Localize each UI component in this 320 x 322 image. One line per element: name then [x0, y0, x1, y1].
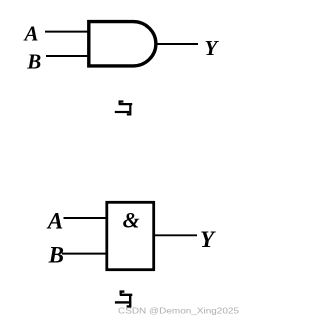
- svg-text:A: A: [46, 208, 63, 234]
- wire: U2 output to Y: [154, 234, 197, 236]
- label B (U2 input B): [48, 243, 64, 268]
- svg-text:A: A: [23, 21, 39, 45]
- wire: input A to U1: [45, 31, 88, 33]
- caption 与 (AND) under U1, drawn glyph: [115, 102, 132, 115]
- label A (U2 input A): [46, 208, 63, 234]
- svg-text:CSDN @Demon_Xing2025: CSDN @Demon_Xing2025: [118, 306, 240, 315]
- AND gate U2 (IEC rectangular symbol): [107, 202, 154, 269]
- svg-text:&: &: [123, 209, 140, 233]
- AND gate U1 (distinctive D-shape symbol): [89, 22, 156, 66]
- label & inside U2: [123, 209, 140, 233]
- watermark CSDN @Demon_Xing2025: [118, 306, 240, 315]
- label A (U1 input A): [23, 21, 39, 45]
- svg-text:Y: Y: [205, 36, 220, 60]
- wire: input B to U2: [62, 253, 106, 255]
- wire: U1 output to Y: [157, 43, 198, 45]
- svg-text:B: B: [26, 50, 41, 74]
- label Y (U1 output): [205, 36, 220, 60]
- caption 与 (AND) under U2, drawn glyph: [115, 292, 132, 307]
- wire: input B to U1: [46, 55, 88, 57]
- label B (U1 input B): [26, 50, 41, 74]
- svg-text:Y: Y: [200, 227, 216, 252]
- label Y (U2 output): [200, 227, 216, 252]
- svg-text:B: B: [48, 243, 64, 268]
- wire: input A to U2: [64, 217, 107, 219]
